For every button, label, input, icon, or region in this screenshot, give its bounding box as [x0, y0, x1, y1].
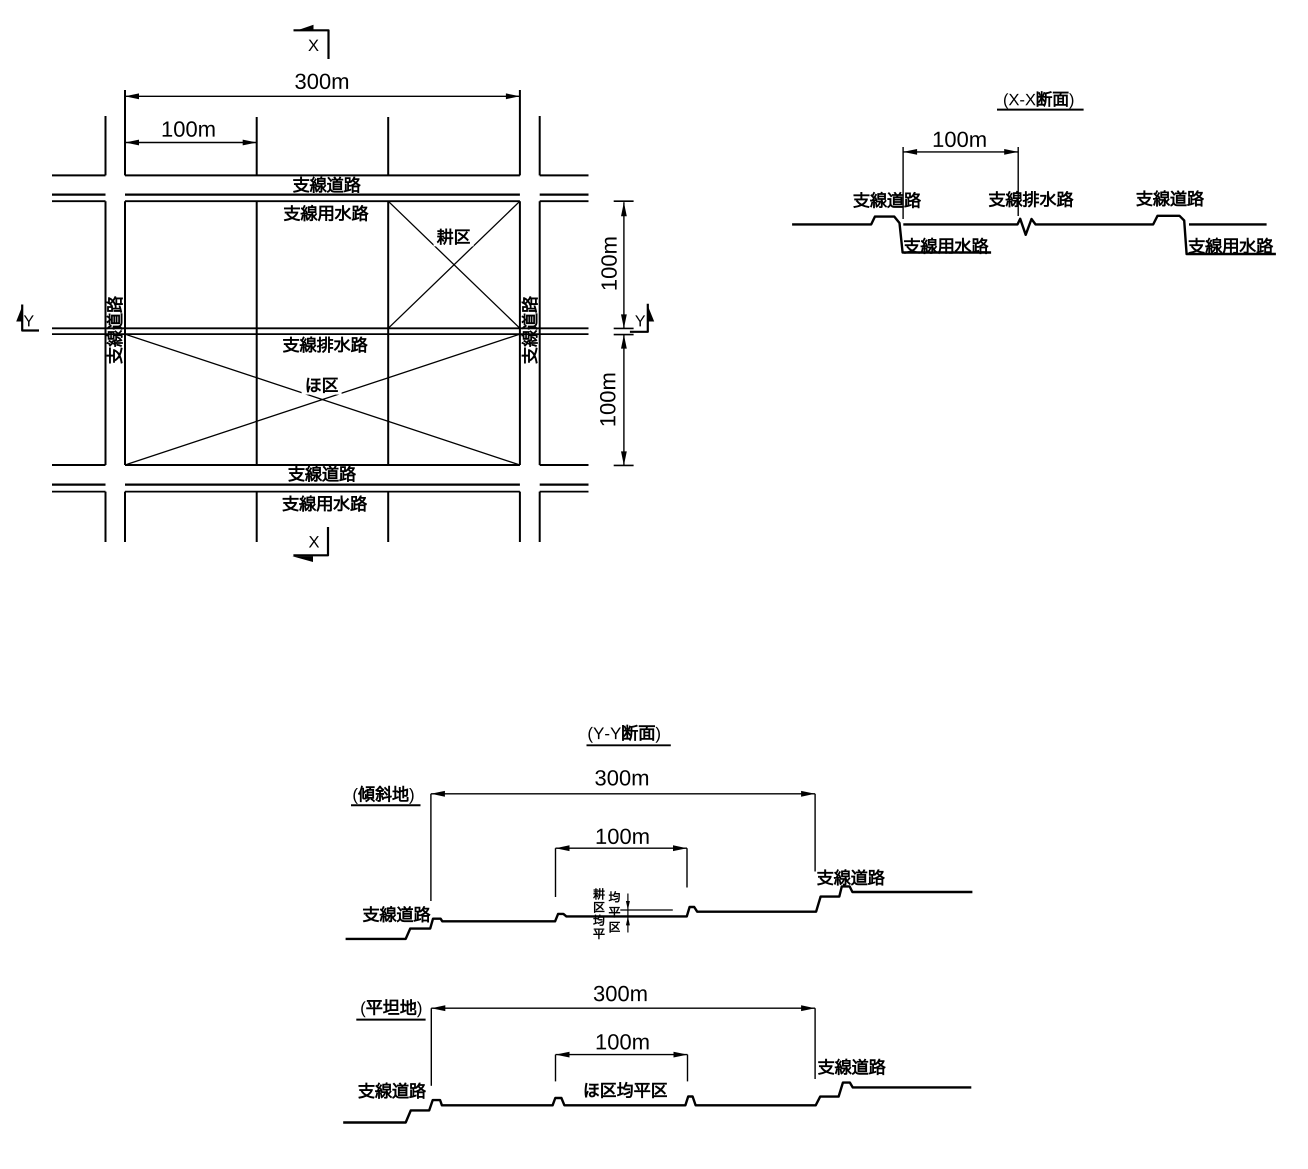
- node flat road label right: [819, 1059, 886, 1075]
- wire grid vertical at 200m: [387, 117, 389, 542]
- wire lower 100m arrow down: [621, 451, 627, 465]
- wire section marker Y right: [630, 304, 648, 332]
- node 100m dimension text: [163, 121, 215, 137]
- node sloped 300m text: [595, 770, 648, 786]
- node sloped-land label: [353, 786, 413, 804]
- wire cultivation-plot cross diagonal 2: [388, 201, 520, 328]
- wire left road east line / 300m extension: [124, 90, 126, 542]
- wire right dim tick mid lower: [614, 334, 634, 336]
- wire right dim tick top: [614, 200, 634, 202]
- wire flat 300m extension right: [814, 1008, 816, 1079]
- wire sloped step arrow down: [626, 901, 630, 910]
- wire sloped 100m dimension line: [556, 847, 688, 849]
- node X-X drainage label: [989, 191, 1073, 207]
- wire 300m dimension arrow right: [506, 93, 520, 99]
- wire X-X ground right of canal: [1189, 223, 1267, 225]
- wire sloped-land underline: [351, 804, 421, 806]
- node X-X section title: [1004, 91, 1073, 108]
- node flat 100m text: [597, 1034, 649, 1050]
- node right road label rotated: [522, 297, 538, 364]
- wire flat-land underline: [356, 1019, 425, 1021]
- wire sloped 300m extension right: [814, 794, 816, 872]
- wire top road south line: [52, 193, 589, 195]
- node sloped step label column 1: [593, 888, 604, 899]
- wire flat 300m dimension line: [431, 1007, 815, 1009]
- node 300m dimension text: [295, 74, 348, 90]
- wire sloped 300m arrow right: [801, 791, 815, 797]
- wire right dim tick bottom: [614, 464, 634, 466]
- wire left road west line: [105, 116, 107, 542]
- node lower 100m text: [600, 374, 616, 426]
- wire sloped step reference tick: [620, 909, 673, 911]
- node top irrigation label: [284, 205, 368, 221]
- wire right road west line / 300m extension: [519, 90, 521, 542]
- wire lower 100m arrow up: [621, 335, 627, 349]
- wire section marker X bottom: [293, 527, 328, 555]
- node hoku label: [302, 376, 342, 395]
- wire sloped 300m extension left: [430, 794, 432, 901]
- wire right road east line: [539, 116, 541, 542]
- wire cultivation-plot cross diagonal 1: [388, 201, 520, 328]
- node bottom irrigation label: [283, 496, 367, 512]
- node X-X 100m text: [934, 132, 986, 148]
- wire section marker X top: [294, 30, 329, 59]
- node bottom road label: [289, 466, 356, 482]
- node section marker X top text: [308, 40, 318, 51]
- wire 100m dimension arrow left: [125, 140, 139, 146]
- wire X-X extension right: [1017, 147, 1019, 216]
- wire flat 100m extension right: [687, 1055, 689, 1082]
- node sloped step label column 2: [609, 891, 620, 902]
- node section marker Y left text: [24, 315, 34, 326]
- wire flat ground profile: [343, 1083, 971, 1123]
- wire sloped 300m dimension line: [431, 793, 815, 795]
- wire top irrigation channel line: [52, 200, 589, 202]
- node flat 300m text: [594, 986, 647, 1002]
- node upper 100m text: [601, 238, 617, 290]
- node flat road label left: [359, 1083, 426, 1099]
- node sloped 100m text: [597, 829, 649, 845]
- node X-X road label left: [854, 192, 921, 208]
- wire lower 100m dimension line: [623, 335, 625, 466]
- node flat leveling label: [585, 1082, 667, 1098]
- wire X-X 100m dimension line: [903, 151, 1018, 153]
- wire bottom road north line: [52, 464, 589, 466]
- wire section marker X bottom arrow: [292, 556, 313, 562]
- node Y-Y section title: [588, 725, 660, 743]
- wire flat 300m arrow right: [801, 1005, 815, 1011]
- node X-X irrigation label right: [1189, 238, 1273, 254]
- node left road label rotated: [107, 297, 123, 364]
- node X-X road label right: [1137, 191, 1204, 207]
- node section marker X bottom text: [309, 536, 319, 547]
- wire section marker X top arrow: [298, 25, 314, 30]
- wire field-plot cross diagonal 2: [125, 334, 520, 465]
- wire X-X 100m arrow right: [1004, 149, 1018, 155]
- wire grid vertical at 100m: [256, 117, 258, 542]
- wire X-X ground profile west: [792, 217, 991, 253]
- wire flat 300m arrow left: [431, 1005, 445, 1011]
- wire sloped 100m arrow left: [556, 845, 570, 851]
- wire section marker Y right arrow: [647, 305, 654, 322]
- wire sloped 100m extension right: [686, 848, 688, 887]
- wire right dim tick mid upper: [614, 327, 634, 329]
- wire bottom irrigation channel line: [52, 491, 589, 493]
- wire 300m dimension line: [125, 95, 520, 97]
- node sloped road label left: [363, 906, 430, 922]
- wire sloped step dimension line: [627, 894, 629, 933]
- node top road label: [294, 177, 361, 193]
- wire sloped 300m arrow left: [431, 791, 445, 797]
- node flat-land label: [361, 1000, 421, 1018]
- wire 100m dimension line: [125, 142, 257, 144]
- wire section marker Y left arrow: [16, 305, 23, 322]
- node drainage label: [283, 337, 367, 353]
- wire X-X ground profile east: [903, 216, 1276, 254]
- wire X-X extension left: [902, 147, 904, 219]
- node X-X irrigation label left: [904, 238, 988, 254]
- wire X-X title underline: [997, 109, 1084, 111]
- wire 100m dimension arrow right: [243, 140, 257, 146]
- wire middle drainage channel line upper: [52, 327, 589, 329]
- wire upper 100m arrow down: [621, 314, 627, 328]
- wire upper 100m dimension line: [623, 202, 625, 328]
- node sloped road label right: [818, 870, 885, 886]
- wire X-X 100m arrow left: [903, 149, 917, 155]
- wire sloped 100m arrow right: [673, 845, 687, 851]
- wire 300m dimension arrow left: [125, 93, 139, 99]
- wire top road north line: [52, 174, 589, 176]
- wire sloped 100m extension left: [555, 848, 557, 897]
- wire section marker Y left: [22, 305, 39, 331]
- node kouku label: [434, 227, 474, 246]
- wire sloped ground profile: [346, 886, 973, 939]
- wire field-plot cross diagonal 1: [125, 334, 520, 465]
- wire flat 100m arrow right: [674, 1052, 688, 1058]
- wire sloped step arrow up: [626, 916, 630, 925]
- wire flat 100m arrow left: [556, 1052, 570, 1058]
- wire flat 100m dimension line: [556, 1054, 688, 1056]
- wire middle drainage channel line lower: [52, 333, 589, 335]
- wire bottom road south line: [52, 483, 589, 485]
- wire flat 300m extension left: [430, 1008, 432, 1086]
- wire Y-Y title underline: [587, 744, 671, 746]
- node section marker Y right text: [635, 315, 645, 326]
- wire flat 100m extension left: [555, 1055, 557, 1082]
- wire upper 100m arrow up: [621, 202, 627, 216]
